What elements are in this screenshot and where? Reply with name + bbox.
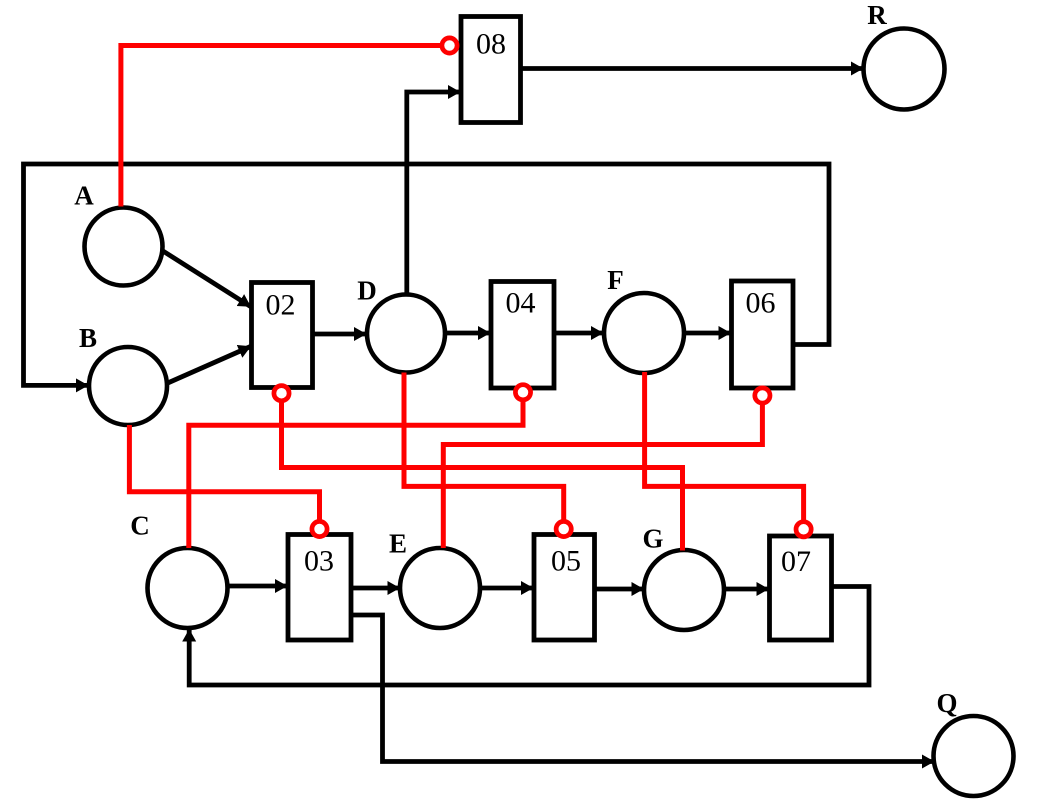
svg-text:05: 05 [551, 545, 581, 578]
wire 03 to E [351, 586, 400, 591]
svg-text:F: F [607, 265, 624, 295]
place Q [934, 716, 1014, 796]
svg-text:B: B [79, 323, 97, 353]
red inhibitor terminator atop 03 [312, 521, 327, 536]
red inhibitor terminator atop 05 [556, 521, 571, 536]
wire 04 to F [554, 331, 603, 336]
transition 08 [461, 17, 521, 123]
wire C to 03 [228, 584, 288, 589]
wire 08 to R [521, 66, 864, 71]
wire 05 to G [595, 587, 644, 592]
red inhibitor arc E to 06 [443, 402, 762, 548]
place G [644, 550, 724, 630]
place C [148, 548, 228, 628]
svg-text:A: A [74, 181, 94, 211]
red inhibitor terminator under 06 [755, 388, 770, 403]
wire A to 02 [159, 249, 251, 307]
wire 07 output loop to place C (right, down, left, arrow up into C bottom) [189, 587, 869, 686]
svg-text:03: 03 [304, 545, 334, 578]
svg-text:06: 06 [746, 287, 776, 320]
svg-text:G: G [642, 524, 663, 554]
transition 06 [732, 281, 794, 388]
wire E to 05 [480, 586, 533, 591]
wire 02 to D [313, 332, 367, 337]
wire 03 to Q (right, down, long right, arrow into Q) [351, 615, 934, 762]
svg-text:C: C [130, 511, 150, 541]
red inhibitor terminator under 04 [515, 385, 530, 400]
place F [604, 293, 684, 373]
red inhibitor arc F to 07 [645, 372, 804, 523]
place D [367, 295, 445, 373]
place B [89, 347, 167, 425]
place E [400, 548, 480, 628]
place A [85, 208, 163, 286]
red inhibitor arc G to 02 [282, 399, 683, 551]
red inhibitor terminator at 08 [442, 38, 457, 53]
wire D to 04 [445, 331, 491, 336]
wire 06 output loop to place B (right, up, across top, down left side, arrow into B) [24, 164, 830, 385]
red inhibitor arc C to 04 [189, 398, 523, 548]
wire F to 06 [684, 331, 731, 336]
wire D to transition 08 (up then right) [407, 92, 460, 296]
transition 07 [770, 536, 832, 640]
red inhibitor arc A to 08 [121, 46, 440, 207]
transition 05 [534, 535, 595, 641]
svg-text:02: 02 [266, 289, 296, 322]
svg-text:07: 07 [781, 545, 811, 578]
red inhibitor arc B to 03 [129, 425, 319, 523]
svg-text:D: D [357, 276, 377, 306]
svg-text:08: 08 [476, 28, 506, 61]
place R [864, 29, 945, 110]
transition 03 [288, 535, 351, 641]
transition 02 [252, 283, 313, 388]
wire B to 02 [166, 347, 251, 385]
wire G to 07 [724, 587, 769, 592]
red inhibitor arc D to 05 [404, 373, 564, 524]
svg-text:04: 04 [506, 287, 536, 320]
red inhibitor terminator under 02 [274, 386, 289, 401]
transition 04 [491, 282, 554, 389]
svg-text:Q: Q [936, 688, 957, 718]
svg-text:R: R [867, 0, 887, 30]
red inhibitor terminator atop 07 [796, 522, 811, 537]
svg-text:E: E [389, 529, 407, 559]
